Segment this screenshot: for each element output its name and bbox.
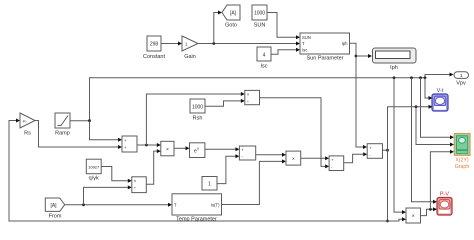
node junction I to XY xyxy=(415,105,418,108)
svg-text:Rs: Rs xyxy=(24,131,31,137)
sum Sum2 e^x-1 xyxy=(239,146,255,160)
wire P branch up to XY graph input 3 xyxy=(430,150,454,210)
svg-text:1000: 1000 xyxy=(192,105,203,111)
wire Rs output down to Sum1 bottom input xyxy=(35,121,122,150)
constant 1 xyxy=(202,177,217,191)
display Iph xyxy=(373,48,417,71)
node junction feedback xyxy=(386,220,389,223)
wire Rsh to Divide2 xyxy=(205,99,245,106)
constant Isc 4 xyxy=(257,47,271,70)
svg-text:-K-: -K- xyxy=(22,120,28,124)
node junction V to PV scope xyxy=(410,76,413,79)
wire Gain output to Sun Parameter T input xyxy=(198,42,300,46)
wire V branch down to product top input xyxy=(394,78,406,214)
node junction P tap xyxy=(429,208,432,211)
svg-text:T: T xyxy=(174,202,177,207)
wire Constant to Gain xyxy=(161,42,182,46)
wire Sum4 output to I node xyxy=(383,149,388,151)
svg-text:4: 4 xyxy=(263,53,266,59)
wire Divide2 to Sum3 bottom xyxy=(260,98,330,169)
sum Sum3 Id+Ish xyxy=(329,156,344,171)
wire exp to Sum2 xyxy=(205,147,240,151)
constant 298 xyxy=(143,36,165,60)
svg-text:u: u xyxy=(197,146,199,150)
wire SUN to Sun Parameter xyxy=(267,13,300,40)
wire Sum2 to Product2 xyxy=(256,153,286,157)
svg-text:1000: 1000 xyxy=(254,11,265,17)
outport Vpv xyxy=(454,72,469,87)
constant SUN 1000 xyxy=(252,5,267,29)
wire feedback rail left and up to Rs xyxy=(9,119,388,222)
wire I right to product bottom input xyxy=(388,217,407,221)
wire Divide1 to Product1 bottom xyxy=(146,149,161,184)
wire Sum1 out to Product1 xyxy=(137,143,161,147)
gain Rs xyxy=(20,113,35,137)
wire From to Temp Parameter xyxy=(65,203,172,207)
node junction V to V-t scope xyxy=(424,76,427,79)
svg-text:[A]: [A] xyxy=(230,11,237,17)
product P=VxI xyxy=(406,208,421,223)
wire I up to V-t scope input 2 xyxy=(388,105,433,150)
svg-text:10927: 10927 xyxy=(88,165,100,170)
node junction V to mult xyxy=(393,76,396,79)
subsystem Temp Parameter xyxy=(172,194,222,223)
node junction T tap xyxy=(82,203,85,206)
svg-text:Isc: Isc xyxy=(260,64,267,70)
svg-text:SUN: SUN xyxy=(254,23,266,29)
wire Product2 to Sum3 xyxy=(301,156,329,160)
svg-text:×: × xyxy=(166,147,169,153)
svg-text:T: T xyxy=(302,41,305,46)
divide Divide2 Vd/Rsh xyxy=(245,90,260,104)
wire product output to P-V scope input 2 xyxy=(421,207,438,215)
svg-text:×: × xyxy=(292,157,295,163)
wire V branch down to P-V scope input 1 xyxy=(412,78,438,204)
node junction ramp output xyxy=(88,119,91,122)
svg-text:Gain: Gain xyxy=(184,54,196,60)
svg-text:q/γk: q/γk xyxy=(89,176,99,182)
wire Sum3 to Sum4 xyxy=(344,152,368,163)
wire V branch down to V-t scope input 1 xyxy=(425,78,433,100)
product Product2 Id xyxy=(286,151,301,165)
wire ramp branch down to Sum1 top input xyxy=(90,121,123,142)
svg-text:Rsh: Rsh xyxy=(193,116,203,122)
wire V net: ramp out, up, across top, to Vpv xyxy=(70,73,454,121)
svg-text:P-V: P-V xyxy=(440,192,450,198)
svg-text:Isc: Isc xyxy=(302,47,307,52)
svg-text:Temp Parameter: Temp Parameter xyxy=(176,217,217,223)
wire q/gk to Divide1 xyxy=(101,167,132,183)
constant q/gk 10927 xyxy=(86,159,101,181)
wire Product1 to exp xyxy=(174,146,190,150)
svg-text:Vpv: Vpv xyxy=(456,81,466,87)
scope V-t xyxy=(432,88,448,111)
wire Iph tap to Display xyxy=(356,54,372,58)
divide Divide1 q/gkT xyxy=(132,177,147,193)
svg-text:X(2Y): X(2Y) xyxy=(455,158,469,164)
math function exp e^u xyxy=(190,143,205,158)
svg-text:×: × xyxy=(412,214,415,220)
ramp Ramp xyxy=(55,113,70,137)
node junction Iph display tap xyxy=(355,55,358,58)
wire IsT to Product2 bottom xyxy=(222,159,287,204)
product Product1 xyxy=(161,141,174,156)
wire constant 1 to Sum2 xyxy=(217,154,239,183)
svg-text:Iph: Iph xyxy=(390,65,398,71)
svg-text:Ramp: Ramp xyxy=(55,131,70,137)
node junction Vd tap xyxy=(145,144,148,147)
svg-text:Goto: Goto xyxy=(225,23,237,29)
wire I down to feedback rail xyxy=(387,150,389,221)
svg-text:Iph: Iph xyxy=(342,41,348,46)
goto [A] xyxy=(222,5,240,29)
svg-text:[A]: [A] xyxy=(50,203,57,209)
svg-text:SUN: SUN xyxy=(302,35,311,40)
svg-text:From: From xyxy=(49,214,62,220)
xy graph X(2Y) Graph xyxy=(454,134,470,171)
from [A] xyxy=(45,198,64,220)
scope P-V xyxy=(437,192,452,216)
wire Isc to Sun Parameter xyxy=(271,48,300,55)
svg-text:Sun Parameter: Sun Parameter xyxy=(307,56,344,62)
wire Vd branch up to Divide2 xyxy=(146,92,244,145)
svg-text:1: 1 xyxy=(208,182,211,188)
sum Sum4 I=Iph-Id-Ish xyxy=(367,144,382,159)
node junction on T wire xyxy=(212,42,215,45)
wire Iph output down to sum xyxy=(350,43,368,149)
node junction V to XY graph xyxy=(419,76,422,79)
wire branch up to Goto xyxy=(214,11,222,44)
wire T branch up to Divide1 xyxy=(84,185,132,204)
svg-text:V-t: V-t xyxy=(437,88,444,94)
constant Rsh 1000 xyxy=(190,99,205,122)
subsystem Sun Parameter xyxy=(300,33,350,62)
svg-text:Is(T): Is(T) xyxy=(211,202,220,207)
svg-text:Graph: Graph xyxy=(455,164,470,170)
wire V branch down to XY graph input 1 xyxy=(421,78,455,139)
node junction I xyxy=(386,149,389,152)
gain Gain xyxy=(182,36,198,60)
svg-text:Constant: Constant xyxy=(143,54,165,60)
svg-text:298: 298 xyxy=(150,42,159,48)
sum Sum1 V+IRs xyxy=(122,136,137,152)
wire I branch down to XY graph input 2 xyxy=(416,107,454,147)
